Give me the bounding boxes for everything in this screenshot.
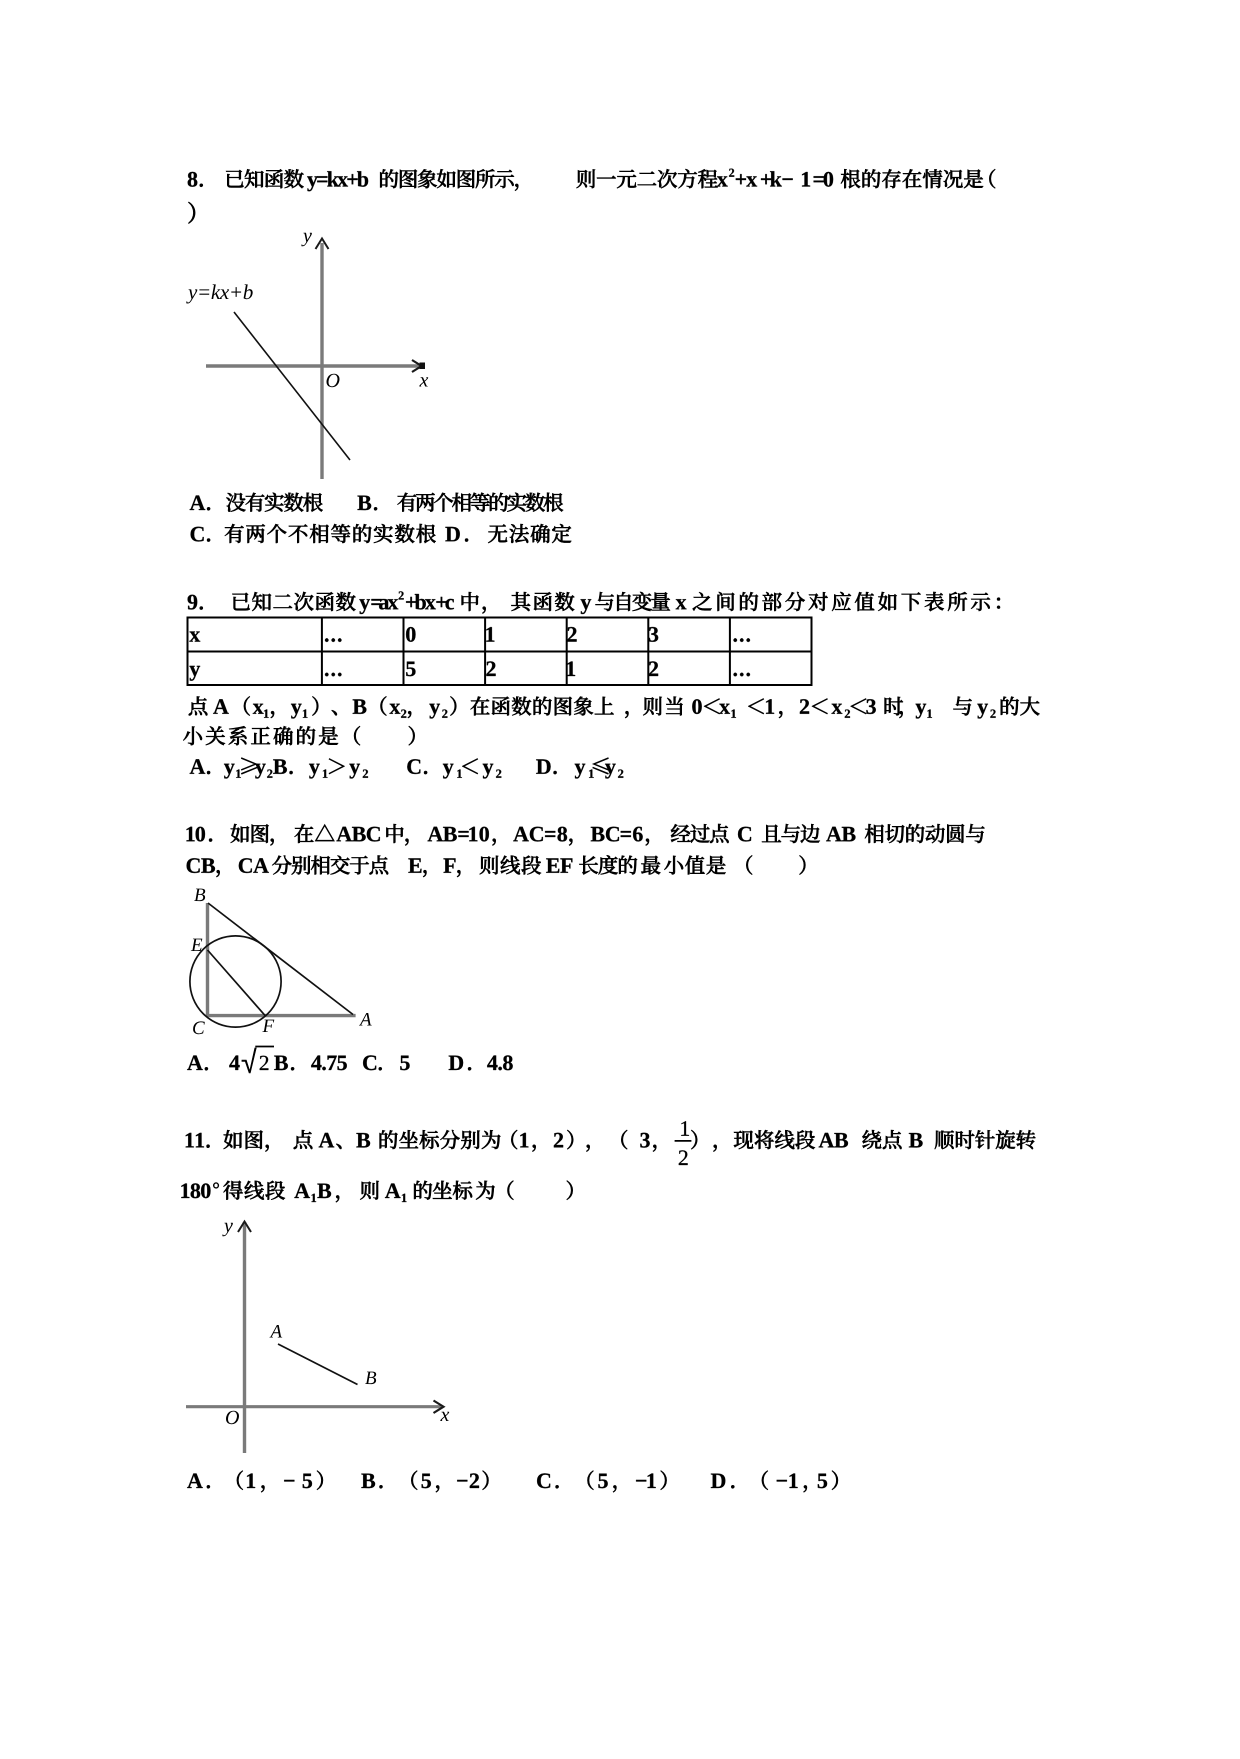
x-axis — [186, 1405, 441, 1408]
y-axis arrowhead — [238, 1222, 251, 1233]
line y=kx+b — [234, 312, 350, 460]
x-axis — [206, 364, 420, 368]
side CB — [206, 903, 209, 1016]
side BA — [208, 903, 353, 1015]
x-axis arrowhead — [434, 1401, 444, 1414]
document text: CJK glyphs as outlined paths — [183, 169, 1039, 1492]
figure Q8: graph of line y=kx+b — [206, 239, 425, 480]
circle through C — [190, 936, 281, 1027]
y-axis arrowhead — [316, 239, 329, 250]
table Q9: values of x and y — [187, 618, 813, 686]
side CA — [206, 1014, 356, 1017]
figure Q11: coordinate axes with segment AB — [186, 1222, 444, 1454]
x-axis arrowhead — [412, 360, 422, 372]
radical vinculum over 2 — [255, 1046, 274, 1048]
figure labels: italic letters — [186, 233, 449, 1424]
chord EF — [208, 950, 266, 1016]
y-axis — [243, 1222, 246, 1453]
figure Q10: triangle ABC with circle through C — [190, 903, 356, 1027]
segment AB — [278, 1344, 358, 1385]
document text: Latin glyphs — [181, 169, 995, 1489]
fraction bar of 1/2 — [675, 1140, 692, 1142]
y-axis — [320, 243, 323, 479]
